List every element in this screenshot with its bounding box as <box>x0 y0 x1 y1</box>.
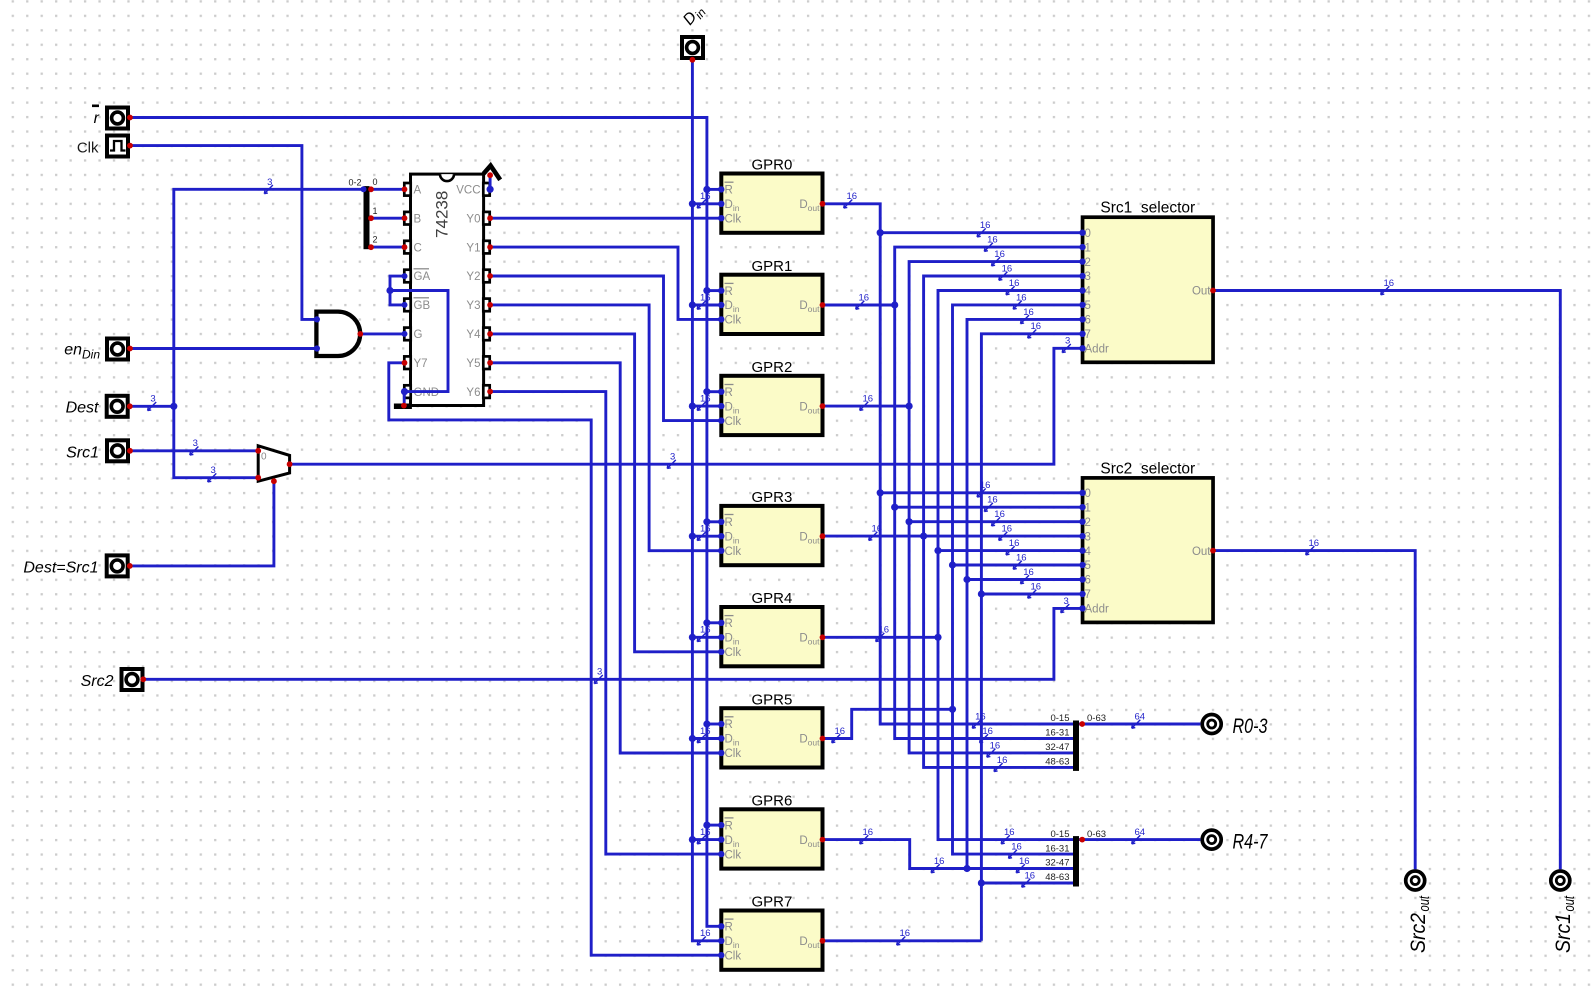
svg-text:R0-3: R0-3 <box>1233 715 1268 738</box>
svg-text:R: R <box>725 820 733 832</box>
svg-text:16: 16 <box>982 726 993 737</box>
svg-text:16: 16 <box>934 856 945 867</box>
svg-text:16: 16 <box>1031 321 1042 332</box>
svg-text:16: 16 <box>994 249 1005 260</box>
svg-text:Clk: Clk <box>725 546 742 558</box>
svg-text:Clk: Clk <box>725 213 742 225</box>
svg-text:16: 16 <box>1023 567 1034 578</box>
svg-text:16: 16 <box>700 191 711 202</box>
svg-text:16: 16 <box>863 827 874 838</box>
svg-text:GPR5: GPR5 <box>751 691 792 708</box>
svg-text:GPR7: GPR7 <box>751 894 792 911</box>
svg-text:16: 16 <box>859 292 870 303</box>
svg-text:16: 16 <box>975 711 986 722</box>
svg-text:64: 64 <box>1135 827 1146 838</box>
svg-text:16: 16 <box>1004 827 1015 838</box>
svg-text:16: 16 <box>1009 538 1020 549</box>
svg-text:Y0: Y0 <box>466 213 480 225</box>
svg-text:3: 3 <box>1064 596 1069 607</box>
svg-text:GPR4: GPR4 <box>751 590 792 607</box>
svg-text:3: 3 <box>211 465 216 476</box>
svg-text:3: 3 <box>267 177 272 188</box>
svg-text:16: 16 <box>987 495 998 506</box>
svg-text:Clk: Clk <box>725 315 742 327</box>
svg-text:16: 16 <box>1016 552 1027 563</box>
svg-text:16: 16 <box>700 394 711 405</box>
svg-text:Y3: Y3 <box>466 300 480 312</box>
svg-text:16: 16 <box>863 394 874 405</box>
svg-text:16: 16 <box>700 827 711 838</box>
svg-text:Y1: Y1 <box>466 242 480 254</box>
svg-text:GPR2: GPR2 <box>751 359 792 376</box>
svg-text:GB: GB <box>414 300 431 312</box>
svg-text:GPR6: GPR6 <box>751 793 792 810</box>
svg-text:Clk: Clk <box>725 647 742 659</box>
svg-text:Y5: Y5 <box>466 358 480 370</box>
svg-text:16: 16 <box>700 726 711 737</box>
svg-text:16: 16 <box>700 625 711 636</box>
svg-text:48-63: 48-63 <box>1045 872 1069 883</box>
svg-text:Src1 selector: Src1 selector <box>1100 200 1195 217</box>
svg-text:16-31: 16-31 <box>1045 843 1069 854</box>
svg-text:3: 3 <box>670 452 675 463</box>
svg-text:16: 16 <box>1309 538 1320 549</box>
svg-text:1: 1 <box>373 206 378 216</box>
svg-text:16-31: 16-31 <box>1045 728 1069 739</box>
svg-text:16: 16 <box>997 755 1008 766</box>
svg-text:16: 16 <box>987 235 998 246</box>
svg-text:4: 4 <box>1085 286 1092 298</box>
svg-text:Out: Out <box>1192 546 1211 558</box>
svg-text:16: 16 <box>1384 278 1395 289</box>
svg-text:0-2: 0-2 <box>348 177 361 187</box>
svg-text:G: G <box>414 329 423 341</box>
svg-text:16: 16 <box>980 480 991 491</box>
svg-text:R: R <box>725 185 733 197</box>
svg-text:16: 16 <box>1002 524 1013 535</box>
svg-text:A: A <box>414 185 422 197</box>
svg-text:R: R <box>725 387 733 399</box>
svg-text:Clk: Clk <box>725 951 742 963</box>
svg-text:16: 16 <box>847 191 858 202</box>
svg-text:r: r <box>94 110 100 127</box>
svg-text:Y7: Y7 <box>414 358 428 370</box>
svg-text:GA: GA <box>414 271 431 283</box>
svg-text:Clk: Clk <box>725 748 742 760</box>
svg-text:R: R <box>725 286 733 298</box>
svg-text:out: out <box>1561 895 1578 911</box>
svg-text:Addr: Addr <box>1085 344 1109 356</box>
svg-text:GPR1: GPR1 <box>751 258 792 275</box>
svg-text:16: 16 <box>700 928 711 939</box>
svg-text:R: R <box>725 719 733 731</box>
svg-text:16: 16 <box>700 524 711 535</box>
svg-text:GPR0: GPR0 <box>751 157 792 174</box>
svg-text:Src2 selector: Src2 selector <box>1100 460 1195 477</box>
svg-text:3: 3 <box>193 438 198 449</box>
svg-text:16: 16 <box>994 509 1005 520</box>
svg-text:74238: 74238 <box>433 191 452 238</box>
svg-text:R: R <box>725 922 733 934</box>
svg-text:48-63: 48-63 <box>1045 757 1069 768</box>
svg-text:B: B <box>414 213 422 225</box>
svg-text:Src2: Src2 <box>81 673 114 690</box>
svg-text:0: 0 <box>261 452 267 463</box>
svg-text:GPR3: GPR3 <box>751 489 792 506</box>
svg-text:Clk: Clk <box>725 416 742 428</box>
svg-text:16: 16 <box>1019 856 1030 867</box>
svg-text:16: 16 <box>1031 581 1042 592</box>
svg-text:R: R <box>725 618 733 630</box>
svg-text:Clk: Clk <box>725 849 742 861</box>
svg-text:Y6: Y6 <box>466 387 480 399</box>
svg-text:0-15: 0-15 <box>1050 829 1069 840</box>
svg-text:Src1: Src1 <box>66 444 99 461</box>
svg-text:16: 16 <box>700 292 711 303</box>
svg-text:Dest: Dest <box>66 400 99 417</box>
svg-text:16: 16 <box>1025 870 1036 881</box>
svg-text:out: out <box>1416 895 1433 911</box>
svg-text:Clk: Clk <box>77 140 99 157</box>
svg-text:16: 16 <box>835 726 846 737</box>
svg-text:R: R <box>725 517 733 529</box>
svg-text:16: 16 <box>1011 842 1022 853</box>
svg-text:16: 16 <box>879 625 890 636</box>
svg-text:64: 64 <box>1135 711 1146 722</box>
svg-text:Out: Out <box>1192 286 1211 298</box>
svg-text:Src1: Src1 <box>1552 913 1575 953</box>
svg-text:32-47: 32-47 <box>1045 858 1069 869</box>
svg-text:Addr: Addr <box>1085 604 1109 616</box>
svg-text:16: 16 <box>1009 278 1020 289</box>
svg-text:3: 3 <box>1085 531 1091 543</box>
svg-text:32-47: 32-47 <box>1045 742 1069 753</box>
svg-text:16: 16 <box>990 740 1001 751</box>
svg-text:4: 4 <box>1085 546 1092 558</box>
svg-text:VCC: VCC <box>456 185 480 197</box>
svg-text:Src2: Src2 <box>1407 913 1430 953</box>
svg-text:0: 0 <box>373 177 378 187</box>
svg-text:C: C <box>414 242 422 254</box>
svg-text:16: 16 <box>1023 307 1034 318</box>
svg-text:Dest=Src1: Dest=Src1 <box>23 559 98 576</box>
svg-text:16: 16 <box>1016 292 1027 303</box>
svg-text:3: 3 <box>597 667 602 678</box>
svg-text:0-63: 0-63 <box>1087 713 1106 724</box>
svg-text:0-15: 0-15 <box>1050 713 1069 724</box>
svg-text:3: 3 <box>150 394 155 405</box>
svg-text:3: 3 <box>1065 336 1070 347</box>
svg-text:16: 16 <box>872 524 883 535</box>
svg-text:16: 16 <box>900 928 911 939</box>
svg-text:Y2: Y2 <box>466 271 480 283</box>
svg-text:0-63: 0-63 <box>1087 829 1106 840</box>
svg-text:R4-7: R4-7 <box>1233 831 1269 854</box>
svg-text:16: 16 <box>980 220 991 231</box>
svg-text:Y4: Y4 <box>466 329 481 341</box>
svg-text:16: 16 <box>1002 263 1013 274</box>
svg-text:2: 2 <box>373 235 378 245</box>
